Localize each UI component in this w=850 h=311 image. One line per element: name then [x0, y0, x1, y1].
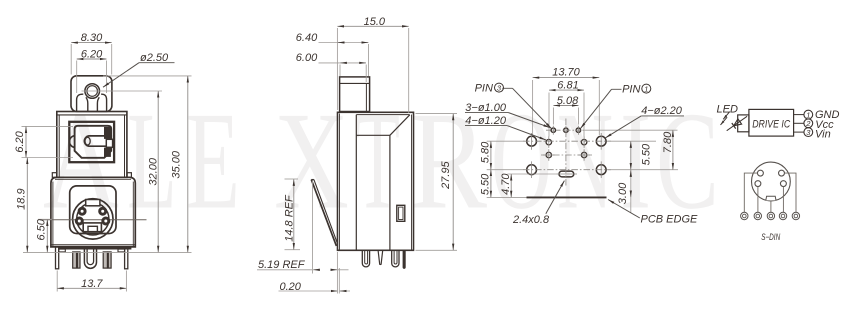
front bracket foot right [118, 249, 125, 252]
side pin A outer [362, 250, 369, 266]
leader 4-dia2.20 [641, 115, 684, 117]
svg-text:6.20: 6.20 [81, 49, 103, 61]
side interior wall [355, 115, 357, 251]
svg-text:1: 1 [644, 84, 648, 93]
pin number 2 circle [804, 119, 813, 128]
dim line 35.00 [187, 76, 189, 253]
ext lines 13.7 [56, 271, 58, 292]
tab cradle cut left wall [77, 94, 84, 111]
centerline row A [546, 129, 586, 131]
svg-text:6.20: 6.20 [14, 130, 26, 152]
pin number 1 circle [804, 110, 813, 119]
right dark block lower [104, 148, 111, 157]
svg-text:6.00: 6.00 [296, 52, 318, 64]
dim line 5.80 left [490, 141, 492, 169]
svg-text:35.00: 35.00 [171, 150, 183, 178]
hole pin3 row A left [551, 128, 555, 132]
ext line 0.20 right [338, 268, 340, 294]
svg-text:5.80: 5.80 [479, 141, 491, 163]
svg-text:4.70: 4.70 [500, 173, 512, 195]
front bracket pin right [125, 247, 128, 269]
front signal pin b [78, 252, 81, 268]
dim line 27.95 [452, 114, 454, 251]
dim line 32.00 [157, 91, 159, 252]
S-DIN pin mid-left [755, 181, 761, 187]
small hole lower left [546, 152, 552, 158]
ext lines 6.81 [548, 93, 550, 137]
terminal 5 [792, 212, 799, 219]
svg-text:6.50: 6.50 [36, 218, 48, 240]
DIN pin 4 [79, 208, 85, 214]
PCB edge line [527, 196, 607, 198]
latch slot [106, 139, 112, 147]
side body inner right wall [411, 115, 413, 251]
oval slot 2.4x0.8 [559, 171, 574, 177]
front bracket pin left [56, 247, 59, 269]
step ear right [127, 173, 131, 178]
svg-text:18.9: 18.9 [16, 188, 28, 209]
side interior step line [356, 134, 390, 136]
ext lines 14.8 REF [285, 178, 299, 180]
hole pin1 row A right [576, 128, 580, 132]
step ear left [52, 173, 56, 178]
big hole bottom right [596, 165, 606, 175]
svg-text:S−DIN: S−DIN [761, 232, 780, 242]
latch window inner [399, 207, 403, 219]
dim arrows 6.00 [340, 62, 346, 64]
tail line 5.19 [257, 269, 312, 271]
ext line 6.50 [38, 218, 52, 220]
DIN housing inner lines [52, 182, 54, 247]
wire pin1 [794, 114, 804, 116]
svg-text:5.19 REF: 5.19 REF [258, 259, 306, 271]
dim line 4.70 [510, 174, 512, 197]
S-DIN circle [752, 162, 791, 201]
svg-text:6.40: 6.40 [296, 32, 318, 44]
svg-text:LED: LED [717, 103, 738, 115]
dim line 14.8 REF [293, 179, 295, 249]
dim line 6.20 left [25, 126, 27, 157]
svg-text:PCB EDGE: PCB EDGE [641, 214, 699, 226]
front signal pin c [103, 252, 107, 268]
svg-text:13.7: 13.7 [81, 278, 103, 290]
dim line 13.7 [57, 287, 126, 289]
optical housing body [57, 112, 127, 178]
svg-text:8.30: 8.30 [81, 32, 103, 44]
side tab block inner wall [365, 83, 367, 111]
dim line 6.81 [549, 89, 584, 91]
svg-text:13.70: 13.70 [552, 67, 580, 79]
ext lines left dims [487, 140, 525, 142]
dim line 5.50 right [630, 141, 632, 170]
svg-text:ø2.50: ø2.50 [140, 52, 169, 64]
dim line 7.80 [672, 130, 674, 170]
tail line 0.20 [279, 290, 332, 292]
3.00 line extension below edge [630, 170, 632, 213]
mounting tab [71, 76, 112, 112]
DIN pin 3 [100, 208, 106, 214]
bottom reference line [23, 251, 192, 253]
wire from top-right pin [785, 173, 797, 212]
ext line hole center 32.00 [82, 90, 163, 92]
svg-text:5.50: 5.50 [479, 173, 491, 195]
svg-text:27.95: 27.95 [440, 160, 452, 189]
DIN bottom key [83, 223, 101, 232]
small hole upper left [546, 139, 552, 145]
centerline row C [541, 154, 592, 156]
svg-text:32.00: 32.00 [148, 157, 160, 185]
dim line 13.70 [533, 77, 600, 79]
leader 2.4x0.8 [546, 181, 565, 214]
metal lever arm [311, 180, 336, 246]
LED diode D1 [727, 116, 747, 130]
LED emission arrow 1 [723, 112, 730, 120]
svg-text:DRIVE IC: DRIVE IC [752, 118, 790, 130]
left release bump [69, 136, 74, 148]
dim line 18.9 [26, 158, 28, 253]
DIN pin 2 [76, 218, 82, 224]
ext lines 6.00 [339, 65, 341, 77]
centerline vertical [565, 119, 567, 187]
centerline row B [523, 140, 611, 142]
toslink shutter pill [84, 136, 111, 146]
wire pin2 [794, 122, 804, 124]
side interior vertical wall [389, 135, 391, 250]
optical housing lip [57, 114, 127, 116]
metal base band [58, 247, 131, 250]
svg-text:3−ø1.00: 3−ø1.00 [465, 102, 507, 114]
ext line tab top 35.00 [103, 75, 192, 77]
ext lines 5.08 [552, 108, 554, 125]
big hole bottom left [527, 165, 537, 175]
svg-text:PIN: PIN [622, 83, 640, 95]
front center shield pin inner [87, 249, 94, 264]
leader PCB EDGE [608, 200, 640, 219]
dim line 5.08 [553, 105, 578, 107]
svg-text:6.81: 6.81 [557, 79, 578, 91]
S-DIN pin mid-right [780, 181, 786, 187]
svg-text:4−ø1.20: 4−ø1.20 [465, 115, 507, 127]
S-DIN bottom notch [766, 196, 776, 200]
svg-text:1: 1 [806, 110, 810, 119]
front center shield pin outer [84, 249, 96, 268]
small hole lower right [581, 152, 587, 158]
leader PIN 3 [502, 87, 512, 89]
fiber end ellipse [85, 137, 90, 145]
tab cradle stem right [97, 97, 99, 111]
leader 4-dia1.20 [465, 125, 507, 127]
svg-text:4−ø2.20: 4−ø2.20 [641, 105, 683, 117]
tab cradle stem left [86, 97, 88, 111]
ext lines right dims [607, 140, 656, 142]
ext lines dim 6.20 top [76, 61, 78, 94]
front signal pin a [73, 252, 77, 268]
svg-text:Vin: Vin [815, 129, 831, 141]
pin number 3 circle [804, 128, 813, 137]
leader 3-dia1.00 [465, 112, 509, 114]
small hole ticks [548, 136, 550, 148]
hole row A center [564, 128, 568, 132]
side body inner top line [356, 114, 409, 116]
tab hole inner [87, 86, 98, 97]
S-DIN pin top-left [757, 170, 763, 176]
dim line 15.0 [337, 25, 408, 27]
side pin B [378, 250, 383, 264]
oval crosshair [557, 173, 578, 175]
ext line body edge down [336, 252, 338, 294]
LED emission arrow 2 [721, 117, 728, 125]
wire pin3 [794, 131, 804, 133]
dim arrows 0.20 [331, 290, 337, 292]
side pin A inner [365, 250, 368, 264]
big hole top left [527, 136, 537, 146]
tab hole outer ring [85, 84, 100, 99]
terminal 3 [767, 212, 774, 219]
dim line 6.50 [46, 219, 48, 252]
svg-text:PIN: PIN [475, 82, 493, 94]
side tab block [340, 77, 370, 112]
leader for hole dia 2.50 [139, 62, 175, 64]
row A hole ticks [552, 126, 554, 135]
section centerline through DIN [40, 219, 147, 221]
ext line oval for 4.70 [508, 173, 557, 175]
ext lines 13.70 [532, 80, 534, 135]
dim arrows 5.19 REF [313, 269, 319, 271]
side body inner left wall [339, 114, 341, 251]
wire from shield notch [770, 201, 772, 213]
svg-text:E: E [186, 84, 240, 239]
ext lines 15.0 [336, 28, 338, 110]
svg-text:15.0: 15.0 [364, 16, 386, 28]
svg-text:T: T [355, 84, 400, 239]
terminal 2 [754, 212, 761, 219]
side body outline [338, 112, 414, 250]
toslink port outer square [69, 122, 114, 162]
svg-text:5.50: 5.50 [641, 143, 653, 165]
dim line 5.50 left [490, 170, 492, 198]
wire from top-left pin [744, 173, 757, 212]
big hole vertical ticks [531, 133, 533, 150]
side pin D [403, 251, 406, 269]
terminal 1 [741, 212, 748, 219]
op-amp U1 DRIVE IC box [749, 109, 794, 136]
svg-text:0.20: 0.20 [280, 281, 302, 293]
dim arrows 3.00 [630, 170, 632, 176]
svg-text:2: 2 [805, 119, 811, 128]
svg-text:2.4x0.8: 2.4x0.8 [512, 214, 550, 226]
latch window outer [397, 205, 405, 221]
DIN inner circle [77, 203, 109, 235]
S-DIN pin top-right [779, 170, 785, 176]
side pin C inner [394, 250, 397, 264]
dim line 6.20 top [77, 58, 107, 60]
ext lines dim 6.20 left [22, 125, 74, 127]
side interior chamfer diagonal [390, 115, 410, 136]
ext lines dim 8.30 [70, 44, 72, 75]
DIN bottom key inner [88, 226, 97, 231]
front bracket foot left [59, 249, 66, 252]
dim line 8.30 [71, 42, 112, 44]
tail lines 6.40 and 6.00 [319, 42, 369, 44]
DIN housing [51, 177, 135, 247]
tab cradle cut right wall [101, 94, 107, 111]
wire from mid-left pin [757, 187, 759, 213]
DIN face plate [70, 186, 116, 234]
DIN pin 1 [103, 218, 109, 224]
ext lines 27.95 [416, 113, 458, 115]
centerline row D [523, 169, 611, 171]
dim arrows 6.40 [338, 42, 344, 44]
ext line 5.19 vertical [312, 181, 314, 274]
ext line 6.40 right [368, 44, 370, 76]
toslink opening [75, 126, 112, 158]
svg-text:3.00: 3.00 [617, 182, 629, 204]
side pin C outer [392, 250, 399, 266]
svg-text:7.80: 7.80 [662, 131, 674, 153]
small hole upper right [581, 139, 587, 145]
terminal 4 [779, 212, 786, 219]
DIN top notch [86, 200, 100, 206]
svg-text:5.08: 5.08 [557, 95, 579, 107]
side tab block top line [340, 82, 370, 84]
LED component box [738, 115, 749, 132]
right dark block upper [104, 127, 111, 139]
big hole top right [596, 136, 606, 146]
housing bottom double line [51, 244, 135, 246]
optical housing inner walls [58, 115, 60, 177]
DIN outer circle [73, 199, 113, 239]
wire from mid-right pin [782, 187, 784, 213]
svg-text:14.8 REF: 14.8 REF [283, 194, 295, 242]
leader PIN 1 [612, 88, 622, 90]
front signal pin d [108, 252, 111, 268]
